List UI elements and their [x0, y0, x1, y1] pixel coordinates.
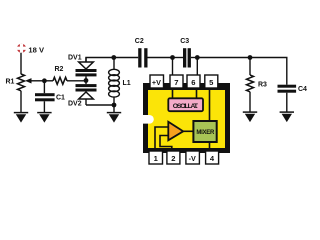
internal wire pin6 to oscillator [196, 88, 198, 99]
inductor L1 [109, 58, 120, 106]
internal wire pin2 to amp input [160, 136, 172, 149]
ground (R3) [243, 112, 257, 122]
capacitor C1 [35, 81, 55, 113]
pin 1 [149, 151, 163, 164]
pin 7 [170, 75, 183, 88]
svg-text:L1: L1 [123, 80, 131, 87]
internal wire pin5 to mixer [209, 88, 211, 122]
node B junction [84, 78, 89, 83]
wire C2 to node pin7 [148, 57, 173, 59]
pin 4 [206, 151, 219, 164]
wire node B vertical [85, 76, 87, 84]
svg-text:6: 6 [191, 78, 195, 87]
internal wire mixer to pin4 [209, 142, 211, 148]
wire supply to R1 [20, 53, 22, 74]
svg-text:C4: C4 [298, 86, 307, 93]
svg-text:C2: C2 [135, 38, 144, 45]
wire node pin7 to C3 [173, 57, 184, 59]
capacitor C4 [278, 85, 297, 112]
node L1 top junction [111, 55, 116, 60]
wire R2 to node B [67, 80, 86, 82]
resistor R2 [53, 77, 67, 84]
wire R1 to ground [20, 91, 22, 113]
node A junction [42, 78, 47, 83]
amplifier triangle [168, 122, 183, 141]
pin -V [186, 151, 200, 164]
node L1 bottom junction [112, 103, 117, 108]
svg-text:-V: -V [189, 154, 196, 163]
pin 6 [187, 75, 200, 88]
internal wire amp output to mixer [182, 130, 194, 132]
capacitor C3 [183, 48, 191, 67]
wire node pin6 to node R3 [197, 57, 250, 59]
svg-text:MIXER: MIXER [196, 130, 215, 136]
varactor DV1 [76, 58, 97, 77]
pin 5 [205, 75, 218, 88]
mixer block [193, 121, 216, 142]
ground (C1) [37, 113, 51, 123]
wire C3 to node pin6 [191, 57, 197, 59]
varactor DV2 [76, 84, 97, 105]
supply +18V symbol [17, 44, 27, 53]
svg-text:DV1: DV1 [68, 54, 82, 61]
svg-text:R1: R1 [6, 79, 15, 86]
internal wire pin7 to oscillator [172, 88, 174, 99]
svg-text:+V: +V [152, 78, 161, 87]
internal wire pin1 to amp input [155, 127, 168, 148]
ground (C4) [280, 112, 294, 122]
ground (L1/DV2) [107, 113, 121, 123]
resistor R3 [247, 58, 254, 113]
wire DV2 bottom to L1 bottom [86, 104, 114, 106]
svg-text:C3: C3 [180, 38, 189, 45]
resistor R1 (potentiometer) [18, 74, 32, 91]
wire drop to pin 6 [196, 58, 198, 76]
wire drop to pin 7 [172, 58, 174, 76]
node pin7 junction [170, 55, 175, 60]
svg-text:R3: R3 [258, 82, 267, 89]
svg-text:DV2: DV2 [68, 101, 82, 108]
IC U1 body [143, 83, 230, 153]
pin +V [150, 75, 164, 88]
node pin6 junction [195, 55, 200, 60]
svg-text:2: 2 [171, 154, 175, 163]
wire wiper to node A [30, 80, 44, 82]
svg-text:R2: R2 [55, 66, 64, 73]
svg-text:C1: C1 [56, 94, 65, 101]
pin 2 [167, 151, 180, 164]
wire node R3 to C4 corner [250, 58, 287, 85]
svg-text:7: 7 [174, 78, 178, 87]
svg-text:OSCILLAT.: OSCILLAT. [173, 103, 199, 110]
oscillator block [168, 98, 203, 111]
node R3 junction [248, 55, 253, 60]
wire L1 top to C2 [114, 57, 138, 59]
wire DV1 top corner [86, 58, 114, 63]
ground (R1) [14, 113, 28, 123]
svg-text:18 V: 18 V [28, 45, 45, 54]
IC notch [143, 115, 154, 124]
capacitor C2 [138, 48, 147, 67]
wire L1 bottom to ground [113, 105, 115, 113]
wire node A to R2 [44, 80, 53, 82]
